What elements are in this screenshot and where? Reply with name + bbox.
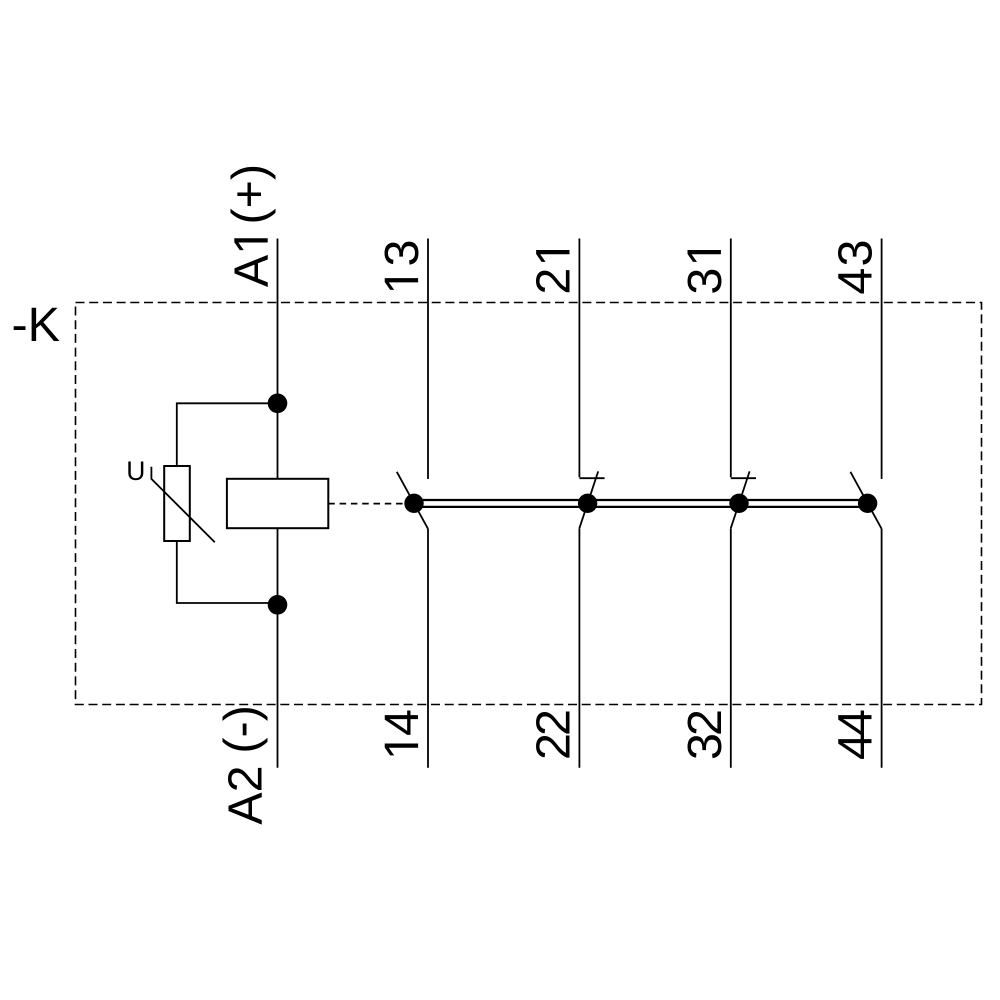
svg-text:4: 4 <box>375 709 429 736</box>
wire: terminal 21 lead <box>578 239 580 478</box>
terminal label 13 <box>375 240 429 290</box>
terminal label 22 <box>527 709 581 760</box>
svg-text:(-): (-) <box>215 705 269 753</box>
svg-text:4: 4 <box>829 268 883 295</box>
svg-text:2: 2 <box>678 709 732 736</box>
wire: terminal 14 lead <box>427 529 429 768</box>
terminal label 43 <box>829 240 883 295</box>
terminal label 32 <box>678 709 732 760</box>
node: actuator attachment on contact 43-44 <box>858 494 877 513</box>
wire: terminal 13 lead <box>427 239 429 480</box>
contact 31 fixed contact bar (NC) <box>731 477 756 479</box>
terminal label 14 <box>375 709 429 755</box>
wire: varistor bottom branch <box>177 541 278 603</box>
svg-text:2: 2 <box>527 709 581 736</box>
svg-text:4: 4 <box>829 709 883 736</box>
svg-text:4: 4 <box>829 733 883 760</box>
contact 13-14 moving contact (NO) <box>397 472 428 529</box>
mechanical link from coil to contacts (dashed) <box>328 503 405 505</box>
svg-text:3: 3 <box>829 240 883 267</box>
svg-text:U: U <box>126 456 145 486</box>
wire: terminal 22 lead <box>578 528 580 768</box>
terminal label 44 <box>829 709 883 760</box>
node: actuator attachment on contact 21-22 <box>578 494 597 513</box>
wire: terminal 43 lead <box>881 239 883 480</box>
mechanical actuator bar (double line) <box>415 500 868 507</box>
contact 21 fixed contact bar (NC) <box>579 477 604 479</box>
relay enclosure outline (dashed) <box>76 303 982 705</box>
svg-text:3: 3 <box>678 733 732 760</box>
wire: varistor top branch <box>177 403 278 466</box>
svg-text:A2: A2 <box>219 765 273 824</box>
contact 31-32 moving contact (NC) <box>731 471 750 528</box>
node: actuator attachment on contact 13-14 <box>404 494 423 513</box>
wire: A1 coil lead <box>277 239 279 479</box>
svg-text:A: A <box>225 254 279 287</box>
contact 43-44 moving contact (NO) <box>850 472 881 529</box>
wire: A2 coil lead <box>277 528 279 768</box>
terminal label 21 <box>527 250 581 295</box>
terminal label A1 (+) <box>223 164 279 287</box>
svg-text:3: 3 <box>375 240 429 267</box>
node: coil top junction <box>268 394 288 414</box>
terminal label 31 <box>678 250 732 295</box>
node: actuator attachment on contact 31-32 <box>729 494 748 513</box>
svg-text:3: 3 <box>678 268 732 295</box>
svg-text:-K: -K <box>12 298 61 352</box>
svg-text:2: 2 <box>527 268 581 295</box>
terminal label A2 (-) <box>215 705 273 825</box>
svg-text:2: 2 <box>527 733 581 760</box>
node: coil bottom junction <box>268 595 288 615</box>
wire: terminal 31 lead <box>730 239 732 478</box>
varistor (surge suppressor) body <box>164 466 190 541</box>
wire: terminal 44 lead <box>881 529 883 768</box>
varistor diagonal stroke with stub <box>151 467 214 543</box>
contact 21-22 moving contact (NC) <box>579 471 598 528</box>
svg-text:(+): (+) <box>223 164 277 225</box>
wire: terminal 32 lead <box>730 528 732 768</box>
coil K (operating coil) <box>227 479 328 528</box>
